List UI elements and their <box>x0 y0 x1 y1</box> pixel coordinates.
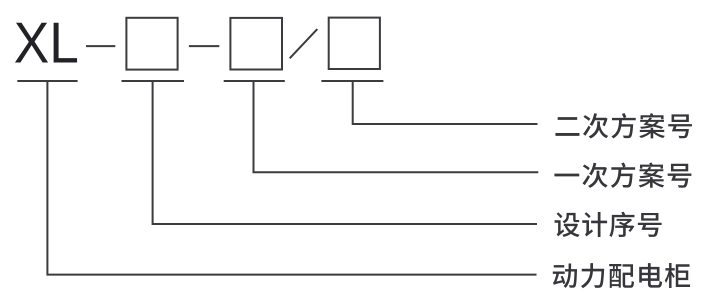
label 一次方案号 <box>554 162 691 187</box>
slash separator <box>290 29 318 58</box>
underline under XL <box>17 80 77 82</box>
box 3 secondary scheme <box>329 18 380 69</box>
dash separator 2 <box>189 45 219 47</box>
leader line to label 一次方案号 <box>254 81 539 172</box>
underline under box 3 <box>321 80 383 82</box>
svg-text:XL: XL <box>14 11 79 75</box>
label 动力配电柜 <box>553 263 690 288</box>
leader line to label 设计序号 <box>153 81 537 224</box>
leader line to label 二次方案号 <box>353 81 538 124</box>
underline under box 2 <box>224 80 285 82</box>
dash separator 1 <box>86 45 115 47</box>
box 2 primary scheme <box>230 18 282 70</box>
leader line to label 动力配电柜 <box>47 81 536 275</box>
underline under box 1 <box>122 80 185 82</box>
label 设计序号 <box>555 212 662 237</box>
label 二次方案号 <box>555 113 692 138</box>
box 1 design serial <box>126 18 177 70</box>
